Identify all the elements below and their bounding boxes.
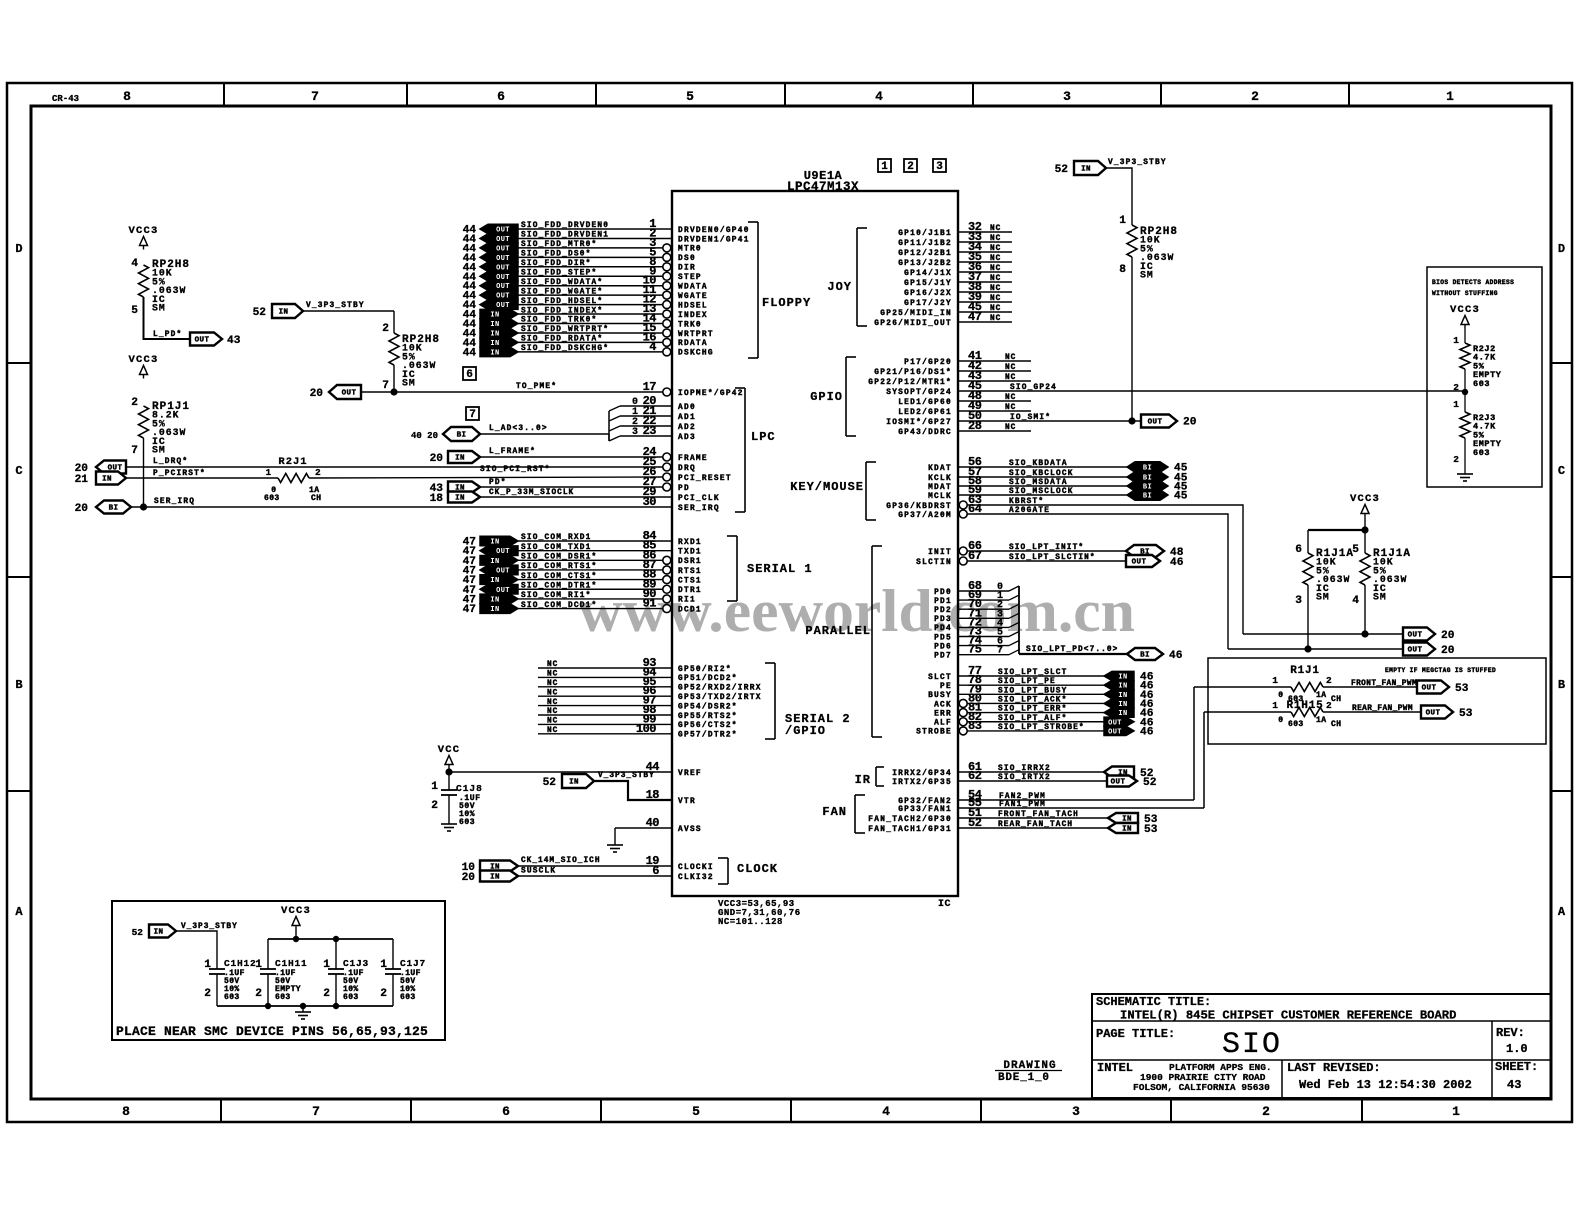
svg-text:46: 46 [1170,557,1184,569]
svg-text:PD2: PD2 [934,607,952,615]
svg-text:7: 7 [131,445,138,457]
svg-text:4: 4 [131,258,138,270]
svg-text:R1J1: R1J1 [1290,665,1320,677]
svg-text:DTR1: DTR1 [678,587,702,595]
svg-text:NC: NC [1005,354,1016,362]
svg-text:OUT: OUT [1111,779,1126,787]
svg-text:SIO_FDD_DS0*: SIO_FDD_DS0* [521,251,592,259]
svg-text:SIO_PCI_RST*: SIO_PCI_RST* [480,466,551,474]
svg-text:SM: SM [1316,592,1330,603]
svg-text:WITHOUT STUFFING: WITHOUT STUFFING [1432,290,1498,297]
svg-text:PD5: PD5 [934,634,952,642]
svg-text:IN: IN [455,455,465,463]
svg-text:CLKI32: CLKI32 [678,874,714,882]
svg-text:NC: NC [990,315,1001,323]
svg-text:OUT: OUT [1426,710,1441,718]
svg-text:SM: SM [402,378,416,389]
svg-text:SIO_FDD_DRVDEN1: SIO_FDD_DRVDEN1 [521,232,609,240]
svg-text:2: 2 [1453,382,1459,393]
svg-text:VTR: VTR [678,798,696,806]
svg-text:NC: NC [547,680,558,688]
svg-text:CK_P_33M_SIOCLK: CK_P_33M_SIOCLK [489,489,574,497]
svg-text:SUSCLK: SUSCLK [521,868,556,876]
svg-text:DCD1: DCD1 [678,606,702,614]
svg-text:GP43/DDRC: GP43/DDRC [898,429,952,437]
svg-text:GP14/J1X: GP14/J1X [904,270,952,278]
svg-text:OUT: OUT [1422,685,1437,693]
svg-text:SIO_COM_CTS1*: SIO_COM_CTS1* [521,573,597,581]
svg-text:C1J3: C1J3 [343,958,369,969]
svg-text:18: 18 [430,493,444,505]
svg-text:SIO_MSDATA: SIO_MSDATA [1009,479,1068,487]
svg-text:LPC: LPC [751,430,776,444]
svg-text:HDSEL: HDSEL [678,302,708,310]
svg-text:1: 1 [1452,1104,1460,1119]
svg-text:6: 6 [1295,544,1302,556]
svg-text:SIO_FDD_DRVDEN0: SIO_FDD_DRVDEN0 [521,222,609,230]
svg-text:5: 5 [692,1104,700,1119]
svg-text:SIO_LPT_BUSY: SIO_LPT_BUSY [998,687,1067,695]
svg-text:SIO_COM_TXD1: SIO_COM_TXD1 [521,544,592,552]
svg-text:SIO_LPT_ALF*: SIO_LPT_ALF* [998,715,1067,723]
svg-text:4: 4 [649,340,656,354]
svg-text:IN: IN [279,309,289,317]
svg-text:REV:: REV: [1496,1026,1525,1040]
svg-text:6: 6 [466,369,473,381]
svg-text:GPIO: GPIO [810,390,843,404]
svg-text:3: 3 [1072,1104,1080,1119]
svg-text:SIO_FDD_DSKCHG*: SIO_FDD_DSKCHG* [521,345,609,353]
svg-text:2: 2 [431,800,438,812]
svg-text:20: 20 [430,453,444,465]
svg-text:OUT: OUT [1408,632,1423,640]
svg-text:SIO_FDD_DIR*: SIO_FDD_DIR* [521,260,592,268]
svg-text:603: 603 [1288,720,1304,729]
svg-text:53: 53 [1455,683,1469,695]
svg-text:FAN: FAN [822,805,847,819]
svg-text:OUT: OUT [1132,559,1147,567]
svg-text:B: B [1558,678,1565,692]
svg-text:5: 5 [686,89,694,104]
svg-text:V_3P3_STBY: V_3P3_STBY [181,923,238,931]
svg-text:/GPIO: /GPIO [785,724,826,738]
svg-text:RTS1: RTS1 [678,568,702,576]
svg-text:23: 23 [643,424,657,438]
svg-text:SIO_FDD_RDATA*: SIO_FDD_RDATA* [521,336,603,344]
svg-text:SIO_FDD_WDATA*: SIO_FDD_WDATA* [521,279,603,287]
svg-text:PD3: PD3 [934,616,952,624]
svg-text:603: 603 [224,993,240,1002]
svg-text:SIO_COM_DSR1*: SIO_COM_DSR1* [521,554,597,562]
svg-text:DSR1: DSR1 [678,558,702,566]
svg-text:LAST REVISED:: LAST REVISED: [1287,1061,1381,1075]
svg-text:SIO_LPT_PD<7..0>: SIO_LPT_PD<7..0> [1026,646,1118,654]
svg-text:1A: 1A [1316,691,1326,700]
svg-text:CTS1: CTS1 [678,577,702,585]
svg-text:20: 20 [310,388,324,400]
svg-text:GP50/RI2*: GP50/RI2* [678,666,732,674]
svg-text:2: 2 [1262,1104,1270,1119]
svg-text:1: 1 [1446,89,1454,104]
svg-text:DRQ: DRQ [678,465,696,473]
svg-text:45: 45 [1174,491,1188,503]
svg-text:FOLSOM, CALIFORNIA 95630: FOLSOM, CALIFORNIA 95630 [1133,1082,1270,1093]
svg-text:SM: SM [1373,592,1387,603]
svg-text:3: 3 [1295,595,1302,607]
svg-text:L_AD<3..0>: L_AD<3..0> [489,425,548,433]
svg-text:SIO_COM_DCD1*: SIO_COM_DCD1* [521,602,597,610]
svg-text:WRTPRT: WRTPRT [678,331,714,339]
svg-text:40 20: 40 20 [411,431,438,441]
svg-text:SLCTIN: SLCTIN [916,559,952,567]
svg-text:IN: IN [102,476,112,484]
svg-text:20: 20 [462,872,476,884]
svg-text:2: 2 [907,161,914,173]
svg-text:SLCT: SLCT [928,674,952,682]
svg-text:L_PD*: L_PD* [153,331,182,339]
svg-text:NC: NC [990,285,1001,293]
svg-text:GP55/RTS2*: GP55/RTS2* [678,713,738,721]
svg-text:SIO_COM_DTR1*: SIO_COM_DTR1* [521,582,597,590]
svg-text:CLOCK: CLOCK [737,862,778,876]
svg-text:603: 603 [343,993,359,1002]
svg-text:1: 1 [255,959,262,971]
svg-text:RDATA: RDATA [678,340,708,348]
svg-text:52: 52 [1055,164,1069,176]
svg-text:GP52/RXD2/IRRX: GP52/RXD2/IRRX [678,685,762,693]
svg-text:LED2/GP61: LED2/GP61 [898,409,952,417]
svg-text:20: 20 [1441,645,1455,657]
svg-text:AD3: AD3 [678,434,696,442]
svg-text:NC: NC [547,718,558,726]
svg-text:SM: SM [152,445,166,456]
svg-text:A: A [1558,905,1566,919]
svg-text:IN: IN [490,606,499,614]
svg-text:DIR: DIR [678,265,696,273]
svg-text:2: 2 [1251,89,1259,104]
svg-text:GP10/J1B1: GP10/J1B1 [898,230,952,238]
svg-text:1: 1 [1453,399,1459,410]
svg-text:0: 0 [1278,716,1283,725]
svg-text:FLOPPY: FLOPPY [762,296,811,310]
svg-text:FAN_TACH1/GP31: FAN_TACH1/GP31 [868,826,952,834]
svg-text:MTR0: MTR0 [678,246,702,254]
svg-text:SIO_LPT_SLCTIN*: SIO_LPT_SLCTIN* [1009,554,1096,562]
svg-text:NC: NC [990,305,1001,313]
svg-text:FRONT_FAN_TACH: FRONT_FAN_TACH [998,811,1079,819]
svg-text:47: 47 [463,604,476,616]
svg-text:SIO_LPT_ERR*: SIO_LPT_ERR* [998,706,1067,714]
svg-text:GP56/CTS2*: GP56/CTS2* [678,722,738,730]
svg-text:DSKCHG: DSKCHG [678,350,714,358]
svg-text:52: 52 [253,307,267,319]
svg-text:V_3P3_STBY: V_3P3_STBY [306,302,365,310]
svg-text:PCI_CLK: PCI_CLK [678,495,720,503]
svg-text:SIO_GP24: SIO_GP24 [1010,384,1057,392]
svg-text:NC: NC [990,295,1001,303]
svg-text:RXD1: RXD1 [678,539,702,547]
svg-text:1A: 1A [1316,716,1326,725]
svg-text:20: 20 [1183,417,1197,429]
svg-text:C1H11: C1H11 [275,958,308,969]
svg-text:OUT: OUT [1108,728,1122,736]
svg-text:2: 2 [323,988,330,1000]
svg-text:GP12/J2B1: GP12/J2B1 [898,250,952,258]
svg-text:SIO_LPT_ACK*: SIO_LPT_ACK* [998,696,1067,704]
svg-text:SIO_FDD_MTR0*: SIO_FDD_MTR0* [521,241,597,249]
svg-text:KDAT: KDAT [928,465,952,473]
svg-text:JOY: JOY [827,280,852,294]
svg-text:IN: IN [1122,826,1132,834]
svg-text:LED1/GP60: LED1/GP60 [898,399,952,407]
svg-text:53: 53 [1459,708,1473,720]
svg-text:SIO_FDD_WRTPRT*: SIO_FDD_WRTPRT* [521,326,609,334]
svg-text:SCHEMATIC TITLE:: SCHEMATIC TITLE: [1096,995,1211,1009]
svg-text:8: 8 [1119,264,1126,276]
svg-text:IOPME*/GP42: IOPME*/GP42 [678,390,744,398]
svg-text:PD*: PD* [489,479,507,487]
svg-text:CH: CH [1331,720,1341,729]
svg-text:BDE_1_0: BDE_1_0 [998,1072,1050,1084]
svg-text:SIO_FDD_INDEX*: SIO_FDD_INDEX* [521,307,603,315]
svg-text:PD4: PD4 [934,625,952,633]
svg-text:AD0: AD0 [678,404,696,412]
svg-text:DS0: DS0 [678,255,696,263]
svg-text:1.0: 1.0 [1506,1042,1528,1056]
svg-text:4: 4 [882,1104,890,1119]
svg-text:5: 5 [131,305,138,317]
svg-text:NC=101..128: NC=101..128 [718,917,783,927]
svg-text:GP54/DSR2*: GP54/DSR2* [678,703,738,711]
svg-text:1: 1 [204,959,211,971]
svg-text:6: 6 [497,89,505,104]
svg-text:SIO_MSCLOCK: SIO_MSCLOCK [1009,488,1074,496]
svg-text:MDAT: MDAT [928,484,952,492]
svg-text:GP22/P12/MTR1*: GP22/P12/MTR1* [868,379,952,387]
svg-text:SER_IRQ: SER_IRQ [154,498,195,506]
svg-text:2: 2 [382,323,389,335]
svg-text:8: 8 [123,89,131,104]
svg-text:SIO_FDD_WGATE*: SIO_FDD_WGATE* [521,288,603,296]
svg-text:SERIAL 1: SERIAL 1 [747,562,813,576]
svg-text:SIO_KBCLOCK: SIO_KBCLOCK [1009,470,1074,478]
svg-text:NC: NC [1005,404,1016,412]
svg-text:GP17/J2Y: GP17/J2Y [904,300,952,308]
svg-text:CLOCKI: CLOCKI [678,864,714,872]
svg-text:BI: BI [1143,493,1152,501]
svg-text:IRRX2/GP34: IRRX2/GP34 [892,770,952,778]
svg-text:GP51/DCD2*: GP51/DCD2* [678,675,738,683]
svg-text:47: 47 [968,310,982,324]
svg-text:1: 1 [266,468,272,478]
svg-text:BI: BI [1140,652,1150,660]
svg-text:NC: NC [1005,374,1016,382]
svg-text:PD: PD [678,485,690,493]
svg-text:RI1: RI1 [678,597,696,605]
svg-text:SIO_KBDATA: SIO_KBDATA [1009,460,1068,468]
svg-text:SIO_FDD_TRK0*: SIO_FDD_TRK0* [521,317,597,325]
svg-text:BI: BI [109,505,119,513]
svg-text:SIO_IRTX2: SIO_IRTX2 [998,774,1051,782]
svg-text:2: 2 [380,988,387,1000]
svg-text:43: 43 [1507,1078,1521,1092]
svg-text:NC: NC [990,275,1001,283]
svg-text:C1J8: C1J8 [456,783,483,794]
svg-text:SM: SM [152,303,166,314]
svg-text:CH: CH [311,494,321,503]
svg-text:7: 7 [997,646,1003,657]
svg-text:D: D [1558,242,1565,256]
svg-text:GP15/J1Y: GP15/J1Y [904,280,952,288]
svg-text:1: 1 [1453,335,1459,346]
svg-text:AD1: AD1 [678,414,696,422]
svg-text:SIO: SIO [1222,1028,1282,1062]
svg-text:603: 603 [1473,379,1490,389]
svg-text:TXD1: TXD1 [678,548,702,556]
svg-text:6: 6 [502,1104,510,1119]
svg-text:52: 52 [1143,777,1157,789]
svg-text:1: 1 [380,959,387,971]
svg-text:D: D [15,242,22,256]
svg-text:67: 67 [968,549,982,563]
svg-text:603: 603 [275,993,291,1002]
svg-text:INDEX: INDEX [678,312,708,320]
svg-text:OUT: OUT [342,390,357,398]
svg-text:100: 100 [636,722,656,736]
svg-text:603: 603 [264,494,280,503]
svg-text:C1J7: C1J7 [400,958,426,969]
svg-text:83: 83 [968,719,982,733]
svg-text:2: 2 [255,988,262,1000]
svg-text:BIOS DETECTS ADDRESS: BIOS DETECTS ADDRESS [1432,279,1514,286]
svg-text:NC: NC [547,708,558,716]
svg-text:CK_14M_SIO_ICH: CK_14M_SIO_ICH [521,857,601,865]
svg-text:2: 2 [131,397,138,409]
svg-text:GP21/P16/DS1*: GP21/P16/DS1* [874,369,952,377]
svg-text:R2J1: R2J1 [278,456,307,468]
svg-text:IOSMI*/GP27: IOSMI*/GP27 [886,419,952,427]
svg-text:REAR_FAN_TACH: REAR_FAN_TACH [998,821,1073,829]
svg-text:TRK0: TRK0 [678,321,702,329]
svg-text:IN: IN [490,874,500,882]
svg-text:SM: SM [1140,270,1154,281]
svg-text:SIO_IRRX2: SIO_IRRX2 [998,765,1051,773]
svg-text:INIT: INIT [928,549,952,557]
svg-text:NC: NC [990,235,1001,243]
svg-text:7: 7 [382,380,389,392]
svg-text:PD0: PD0 [934,589,952,597]
svg-text:FAN_TACH2/GP30: FAN_TACH2/GP30 [868,816,952,824]
svg-text:1: 1 [1272,700,1278,711]
svg-text:WGATE: WGATE [678,293,708,301]
svg-text:91: 91 [643,597,657,611]
svg-text:7: 7 [469,409,476,421]
svg-text:KEY/MOUSE: KEY/MOUSE [790,480,864,494]
svg-text:VREF: VREF [678,770,702,778]
svg-text:C: C [1558,464,1565,478]
svg-text:PLACE NEAR SMC DEVICE PINS 56,: PLACE NEAR SMC DEVICE PINS 56,65,93,125 [116,1024,428,1039]
svg-text:ERR: ERR [934,710,952,718]
svg-text:SIO_COM_RTS1*: SIO_COM_RTS1* [521,563,597,571]
svg-text:SIO_LPT_PE: SIO_LPT_PE [998,678,1056,686]
svg-text:603: 603 [400,993,416,1002]
svg-text:GP16/J2X: GP16/J2X [904,290,952,298]
svg-text:KCLK: KCLK [928,475,952,483]
svg-text:STEP: STEP [678,274,702,282]
svg-text:52: 52 [968,816,982,830]
svg-text:SIO_LPT_SLCT: SIO_LPT_SLCT [998,669,1067,677]
svg-text:PARALLEL: PARALLEL [805,624,871,638]
svg-text:SIO_FDD_STEP*: SIO_FDD_STEP* [521,269,597,277]
svg-text:FRAME: FRAME [678,455,708,463]
svg-text:SYSOPT/GP24: SYSOPT/GP24 [886,389,952,397]
svg-text:1: 1 [881,161,888,173]
svg-text:A: A [15,905,23,919]
svg-text:IN: IN [455,495,465,503]
svg-text:1: 1 [1272,675,1278,686]
svg-text:GP26/MIDI_OUT: GP26/MIDI_OUT [874,320,952,328]
svg-text:18: 18 [646,788,660,802]
svg-text:GP25/MIDI_IN: GP25/MIDI_IN [880,310,952,318]
svg-text:BI: BI [457,432,467,440]
svg-text:2: 2 [1326,675,1332,686]
svg-text:0: 0 [1278,691,1283,700]
svg-text:TO_PME*: TO_PME* [516,383,557,391]
svg-text:B: B [15,678,22,692]
svg-text:8: 8 [122,1104,130,1119]
svg-text:SIO_LPT_STROBE*: SIO_LPT_STROBE* [998,724,1085,732]
svg-text:6: 6 [652,864,659,878]
svg-text:603: 603 [1473,448,1490,458]
svg-text:NC: NC [990,265,1001,273]
svg-text:SHEET:: SHEET: [1495,1060,1538,1074]
svg-text:NC: NC [990,255,1001,263]
svg-text:GP57/DTR2*: GP57/DTR2* [678,732,738,740]
svg-text:GP53/TXD2/IRTX: GP53/TXD2/IRTX [678,694,762,702]
svg-text:IC: IC [938,899,951,910]
svg-text:SIO_LPT_INIT*: SIO_LPT_INIT* [1009,544,1084,552]
svg-text:603: 603 [459,818,475,827]
svg-text:PD6: PD6 [934,643,952,651]
svg-text:V_3P3_STBY: V_3P3_STBY [598,772,655,780]
svg-text:CR-43: CR-43 [52,94,79,104]
svg-text:SIO_COM_RXD1: SIO_COM_RXD1 [521,534,592,542]
svg-text:OUT: OUT [1408,647,1423,655]
svg-text:NC: NC [1005,424,1016,432]
svg-text:IN: IN [490,349,499,357]
svg-text:PE: PE [940,683,952,691]
svg-text:53: 53 [1144,824,1158,836]
svg-text:75: 75 [968,643,982,657]
svg-text:CH: CH [1331,695,1341,704]
svg-text:2: 2 [1326,700,1332,711]
svg-text:SIO_COM_RI1*: SIO_COM_RI1* [521,592,592,600]
svg-text:44: 44 [463,347,477,359]
svg-text:OUT: OUT [1148,419,1163,427]
svg-text:C1H12: C1H12 [224,958,257,969]
svg-text:ACK: ACK [934,701,952,709]
svg-text:GP37/A20M: GP37/A20M [898,512,952,520]
svg-text:2: 2 [1453,454,1459,465]
svg-text:AD2: AD2 [678,424,696,432]
svg-text:EMPTY IF MEGCTAG IS STUFFED: EMPTY IF MEGCTAG IS STUFFED [1385,667,1496,674]
svg-text:4: 4 [1352,595,1359,607]
svg-text:NC: NC [547,671,558,679]
svg-text:IN: IN [1081,166,1091,174]
svg-text:Wed Feb 13 12:54:30 2002: Wed Feb 13 12:54:30 2002 [1299,1078,1472,1092]
svg-text:DRVDEN1/GP41: DRVDEN1/GP41 [678,236,750,244]
svg-text:AVSS: AVSS [678,826,702,834]
